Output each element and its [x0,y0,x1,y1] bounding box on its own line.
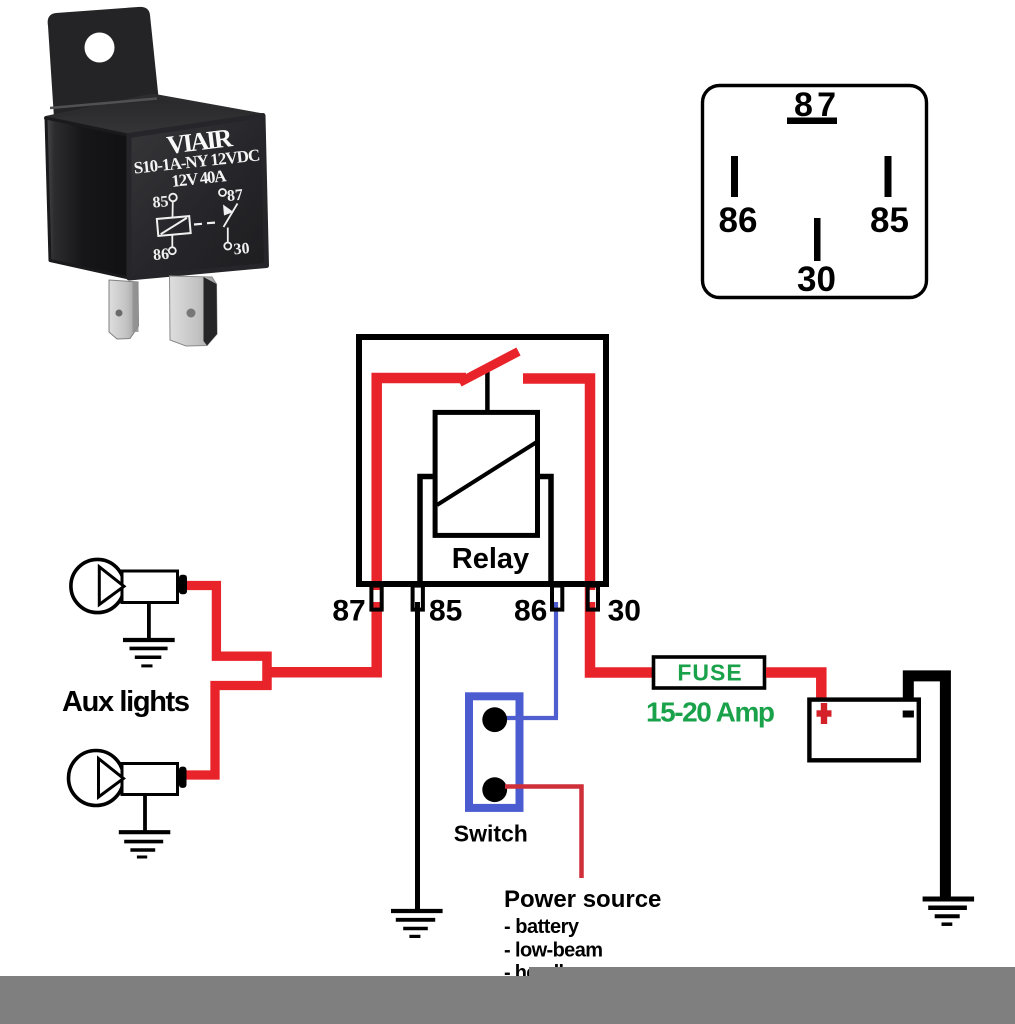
coil bracket right [538,477,552,585]
svg-text:30: 30 [608,595,641,628]
mounting tab [48,7,159,118]
ground G3 (relay pin 85) [391,909,443,913]
body left face [46,118,129,278]
wire: red fuse to battery [766,673,821,701]
pin 86 [553,590,561,602]
pinout 87 underline [787,118,837,125]
svg-text:Relay: Relay [452,543,529,575]
tab/body bevel highlight [50,99,157,109]
wire: blue from pin 86 down [554,600,558,718]
svg-text:Power source: Power source [504,886,661,913]
pinout 85 tick [885,156,892,197]
wire: red from switch arm to pin 30 and fuse [523,379,653,673]
svg-text:Switch: Switch [454,821,528,847]
coil bracket left [420,477,435,585]
wire: blue into switch top contact [502,716,558,720]
wire: red junction S-branch to lamps [186,586,267,776]
svg-text:FUSE: FUSE [677,660,742,686]
printed schematic: pin 86 [171,236,173,248]
lamp L2 body [69,751,124,806]
svg-text:30: 30 [797,260,836,299]
printed schematic: switch arm [224,204,238,228]
relay photo [46,7,267,346]
battery + [817,710,832,716]
svg-text:85: 85 [870,201,909,240]
pinout 86 tick [731,156,738,197]
printed schematic: pin 30 [227,228,229,243]
body top face [46,96,263,136]
fuse F1 [654,657,765,688]
svg-text:86: 86 [719,201,758,240]
battery - [903,711,914,718]
ground G1 [147,604,151,639]
wire: black from pin 85 to ground [415,600,420,910]
pin 87 [373,590,381,602]
pin blade left [109,280,139,339]
svg-text:85: 85 [152,193,169,211]
body front face [129,116,267,279]
ground G4 (battery) [923,897,975,902]
pin blade right [170,276,218,346]
printed schematic: pin 85 terminal [169,194,177,202]
printed schematic: dashes [194,223,215,225]
printed schematic: coil box [157,216,191,236]
junction bar [262,652,271,690]
switch contact arm (red) [460,352,519,383]
svg-text:15-20 Amp: 15-20 Amp [646,697,775,728]
pinout 30 tick [814,218,821,261]
relay contact pivot line [485,368,490,413]
lamp L1 body [71,559,124,612]
wire: thin red switch to power source [505,787,582,879]
svg-text:86: 86 [152,246,169,264]
coil diagonal [437,443,536,506]
svg-text:87: 87 [226,187,243,205]
battery B1 [809,700,918,761]
svg-text:86: 86 [514,595,547,628]
svg-text:Aux lights: Aux lights [62,686,190,718]
svg-text:85: 85 [429,595,462,628]
svg-text:- battery: - battery [504,916,580,938]
pin 85 [414,590,422,602]
ground G2 [143,796,147,832]
relay schematic box [359,337,606,584]
wire: black battery negative to ground [908,676,945,899]
svg-text:87: 87 [332,595,365,628]
relay coil [435,412,537,535]
wire: red feed from pin 87 to lamps junction [267,378,466,672]
svg-text:- low-beam: - low-beam [504,940,603,962]
svg-text:30: 30 [233,240,250,258]
tab hole [85,33,115,63]
relay pinout diagram box [703,86,927,298]
switch S1 [469,696,520,808]
pin 30 [589,590,597,602]
